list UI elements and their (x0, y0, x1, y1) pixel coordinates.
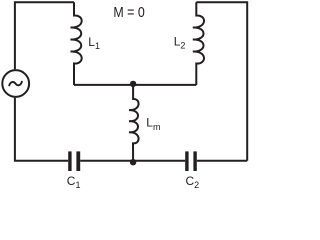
svg-text:M = 0: M = 0 (113, 4, 144, 21)
